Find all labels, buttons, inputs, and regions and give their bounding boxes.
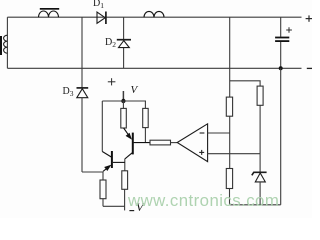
wire R7 branch: [230, 81, 260, 86]
transistor Q1: [124, 128, 150, 159]
label output plus: [306, 15, 312, 21]
wire bottom rail: [7, 67, 301, 69]
watermark: [128, 191, 279, 211]
resistor R6: [226, 97, 232, 116]
wire zener lower: [259, 182, 261, 205]
capacitor C1: [275, 37, 289, 42]
transistor Q2: [102, 151, 125, 171]
wire output down: [280, 68, 282, 205]
resistor R2: [144, 101, 146, 108]
wire top rail: [7, 16, 301, 18]
op-amp minus sign: [200, 132, 205, 134]
resistor R5: [122, 171, 128, 190]
capacitor C1 wire lower: [280, 42, 282, 68]
resistor R1: [122, 101, 124, 108]
diode D2: [117, 40, 131, 48]
resistor R4: [102, 172, 104, 180]
wire D3 branch upper: [81, 17, 83, 88]
label -V V: [136, 201, 143, 213]
wire +V stub: [122, 91, 124, 101]
inductor L2: [144, 11, 164, 17]
wire left vertical: [6, 17, 8, 68]
inductor L1 core bar: [40, 8, 59, 10]
wire Q1 collector down: [124, 159, 126, 171]
label D1: [93, 0, 104, 9]
capacitor C1 wire upper: [280, 17, 282, 37]
label +V plus: [108, 78, 116, 85]
node output junction: [279, 66, 283, 70]
op-amp plus sign: [199, 150, 204, 155]
wire left rail to Q2: [101, 101, 103, 152]
transformer winding T1 secondary: [4, 35, 8, 53]
label D2: [105, 38, 116, 48]
label +V V: [131, 85, 138, 96]
wire D2 branch: [123, 17, 125, 40]
label output minus: [307, 67, 312, 69]
diode D1: [97, 12, 106, 25]
diode D3: [77, 88, 89, 98]
op-amp U1: [177, 124, 207, 162]
wire bottom right rail: [230, 204, 281, 206]
label D3: [63, 87, 74, 97]
wire +V rail: [102, 100, 146, 102]
inductor L1: [39, 11, 59, 17]
label -V dash: [129, 210, 134, 212]
wire non-inverting input: [208, 153, 261, 155]
resistor R7: [257, 86, 263, 105]
resistor R3: [150, 140, 171, 145]
resistor R8: [226, 169, 232, 189]
zener diode D4: [252, 172, 267, 182]
transformer core bar: [0, 36, 2, 55]
wire Q2 emitter line: [82, 171, 103, 173]
wire inverting input: [208, 132, 230, 134]
wire R7 to zener: [259, 105, 261, 171]
wire D3 branch lower: [81, 98, 83, 172]
wire mid vertical R6 branch: [229, 17, 231, 97]
node +V: [121, 99, 125, 103]
label C1 plus: [286, 27, 292, 33]
wire bottom left rail: [103, 205, 125, 207]
wire R3 to op-amp: [171, 142, 178, 144]
